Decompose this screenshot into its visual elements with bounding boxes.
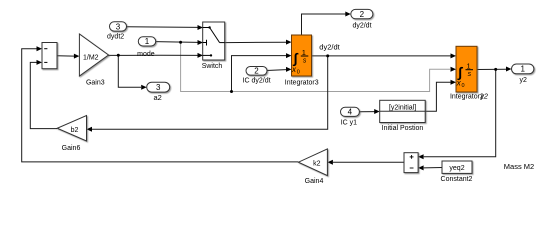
- svg-text:1: 1: [520, 65, 525, 74]
- svg-text:0: 0: [297, 69, 300, 75]
- svg-text:3: 3: [156, 83, 161, 92]
- svg-text:Switch: Switch: [202, 63, 223, 70]
- svg-text:1: 1: [302, 48, 306, 57]
- svg-text:Constant2: Constant2: [441, 176, 473, 183]
- svg-text:Gain6: Gain6: [62, 145, 81, 152]
- svg-text:s: s: [303, 57, 307, 64]
- svg-text:dy2/dt: dy2/dt: [352, 23, 371, 30]
- svg-text:y2: y2: [480, 93, 489, 100]
- svg-text:k2: k2: [313, 160, 321, 167]
- svg-text:b2: b2: [71, 127, 79, 134]
- svg-text:dydt2: dydt2: [107, 34, 124, 41]
- svg-text:Gain3: Gain3: [86, 80, 105, 87]
- svg-text:4: 4: [348, 108, 353, 117]
- svg-text:1: 1: [467, 62, 471, 71]
- svg-text:IC dy2/dt: IC dy2/dt: [243, 78, 271, 85]
- svg-text:Integrator3: Integrator3: [285, 80, 319, 87]
- svg-text:mode: mode: [137, 51, 155, 58]
- svg-text:[y2initial]: [y2initial]: [389, 105, 416, 112]
- svg-text:2: 2: [360, 10, 365, 19]
- svg-text:IC y1: IC y1: [341, 119, 357, 126]
- svg-text:Gain4: Gain4: [305, 178, 324, 185]
- svg-text:3: 3: [116, 22, 121, 31]
- svg-text:1: 1: [145, 37, 150, 46]
- svg-text:y2: y2: [519, 77, 527, 84]
- svg-text:Mass M2: Mass M2: [504, 162, 534, 171]
- svg-text:Initial Postion: Initial Postion: [382, 125, 424, 132]
- svg-text:Integrator2: Integrator2: [450, 94, 484, 101]
- svg-text:2: 2: [254, 67, 259, 76]
- svg-text:0: 0: [462, 83, 465, 89]
- svg-text:yeq2: yeq2: [449, 165, 464, 172]
- svg-text:s: s: [468, 71, 472, 78]
- svg-text:a2: a2: [154, 93, 162, 102]
- svg-text:1/M2: 1/M2: [83, 55, 99, 62]
- svg-text:dy2/dt: dy2/dt: [319, 42, 340, 51]
